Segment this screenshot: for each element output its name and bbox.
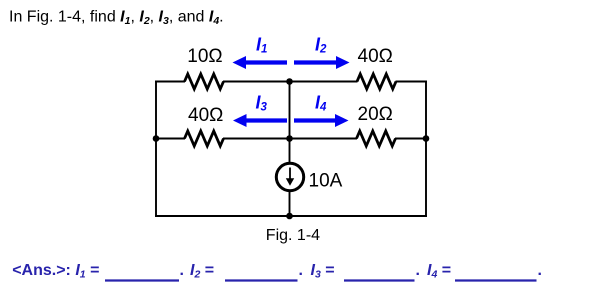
wire: center vertical lower (source to bottom rail) (289, 192, 291, 217)
svg-text:20Ω: 20Ω (358, 104, 393, 125)
node: middle rail center junction (286, 135, 293, 142)
svg-text:I3 =: I3 = (311, 262, 335, 281)
wire: middle rail right segment (395, 138, 427, 140)
wire: middle rail center segment (223, 138, 357, 140)
answer line (12, 262, 542, 281)
svg-text:.: . (538, 262, 542, 279)
resistor 40 ohm (middle left) (185, 131, 224, 146)
current arrow I1 (points left) (233, 56, 288, 69)
svg-text:10Ω: 10Ω (187, 46, 222, 67)
wire: top rail left segment (155, 81, 185, 83)
node: middle rail left junction (153, 135, 160, 142)
wire: center vertical upper (node A to source) (289, 82, 291, 164)
node: bottom center junction (286, 213, 293, 220)
wire: top rail center segment (223, 81, 358, 83)
wire: middle rail left segment (155, 138, 185, 140)
current arrow I3 (points left) (233, 114, 287, 127)
wire: bottom rail (155, 215, 427, 217)
svg-text:I2: I2 (315, 35, 327, 56)
svg-text:Fig. 1-4: Fig. 1-4 (266, 227, 320, 244)
svg-text:I3: I3 (256, 93, 268, 114)
svg-text:.: . (180, 262, 184, 279)
current arrow I2 (points right) (294, 56, 350, 69)
svg-text:<Ans.>: I1 =: <Ans.>: I1 = (12, 262, 99, 281)
svg-text:10A: 10A (309, 171, 343, 192)
svg-text:.: . (299, 262, 303, 279)
resistor 10 ohm (top left) (185, 74, 224, 89)
resistor 40 ohm (top right) (357, 74, 396, 89)
svg-text:I4 =: I4 = (427, 262, 451, 281)
wire: right vertical (425, 81, 427, 218)
svg-text:40Ω: 40Ω (358, 46, 393, 67)
svg-text:40Ω: 40Ω (188, 105, 223, 126)
current source 10A (276, 163, 303, 190)
svg-text:I4: I4 (315, 93, 327, 114)
node: middle rail right junction (423, 135, 430, 142)
wire: top rail right segment (396, 81, 427, 83)
wire: left vertical (155, 81, 157, 218)
current arrow I4 (points right) (294, 114, 349, 127)
svg-text:In Fig. 1-4, find I1, I2, I3,: In Fig. 1-4, find I1, I2, I3, and I4. (9, 9, 224, 28)
node: top center junction (286, 78, 293, 85)
svg-text:I1: I1 (256, 35, 267, 56)
resistor 20 ohm (middle right) (357, 131, 396, 146)
svg-text:.: . (416, 262, 420, 279)
svg-text:I2 =: I2 = (190, 262, 214, 281)
